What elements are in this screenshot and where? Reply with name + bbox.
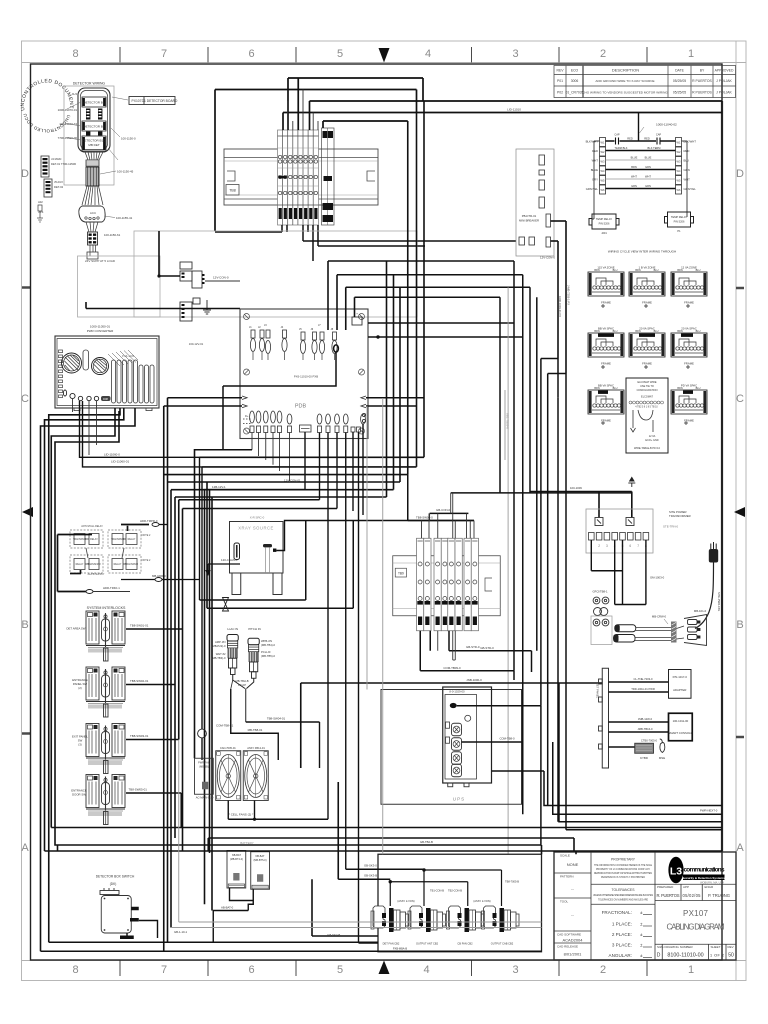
svg-text:ECO: ECO xyxy=(571,69,579,73)
svg-text:FRAME: FRAME xyxy=(601,362,611,366)
svg-text:TB8-SW02-01: TB8-SW02-01 xyxy=(130,679,149,683)
svg-text:4: 4 xyxy=(425,48,431,60)
svg-text:SIZE: SIZE xyxy=(657,945,664,949)
svg-text:CONFIGURATION: CONFIGURATION xyxy=(637,389,658,392)
svg-text:DRAWING NUMBER: DRAWING NUMBER xyxy=(665,945,694,949)
svg-text:8/01/2001: 8/01/2001 xyxy=(564,952,583,957)
svg-text:160-12V-01: 160-12V-01 xyxy=(189,342,204,346)
svg-text:5: 5 xyxy=(337,964,343,976)
svg-text:J201: J201 xyxy=(601,231,607,235)
svg-text:BRN: BRN xyxy=(635,269,640,272)
svg-text:RED: RED xyxy=(684,149,690,153)
svg-text:100-1150-45: 100-1150-45 xyxy=(117,170,134,174)
svg-text:TB1-CON-B: TB1-CON-B xyxy=(430,889,444,893)
svg-text:THE INFORMATION CONTAINED HERE: THE INFORMATION CONTAINED HEREIN IS THE … xyxy=(594,864,652,867)
svg-text:JNB-1000-0: JNB-1000-0 xyxy=(466,678,482,682)
svg-text:1 OF 2: 1 OF 2 xyxy=(710,954,724,958)
svg-text:STE-TRN-0: STE-TRN-0 xyxy=(663,525,678,529)
svg-text:5: 5 xyxy=(337,48,343,60)
svg-text:BLU: BLU xyxy=(613,269,618,272)
svg-text:* CELL FANS (2) *: * CELL FANS (2) * xyxy=(229,813,254,817)
svg-text:4: 4 xyxy=(423,964,429,976)
svg-text:DATE: DATE xyxy=(675,69,685,73)
svg-text:MSE: MSE xyxy=(659,756,665,760)
svg-text:X-R SRC-0: X-R SRC-0 xyxy=(250,516,265,520)
svg-text:WOBURN, MA, USA: WOBURN, MA, USA xyxy=(700,880,724,884)
svg-text:PXB-MBA-B: PXB-MBA-B xyxy=(393,947,408,951)
svg-text:P/N-1017-0: P/N-1017-0 xyxy=(673,675,688,679)
svg-text:(MB-3B): (MB-3B) xyxy=(199,766,208,769)
svg-text:RED: RED xyxy=(644,137,650,141)
svg-text:ACAD2004: ACAD2004 xyxy=(562,938,583,943)
svg-text:REPRODUCTION IN PART OR WHOLE: REPRODUCTION IN PART OR WHOLE WITHOUT WR… xyxy=(594,872,652,875)
svg-text:1: 1 xyxy=(688,964,694,976)
svg-text:L3: L3 xyxy=(670,866,682,878)
svg-text:NONE: NONE xyxy=(567,862,579,867)
svg-text:GB-TB2-B: GB-TB2-B xyxy=(420,840,433,844)
svg-text:GM-1003-0: GM-1003-0 xyxy=(650,576,665,580)
svg-text:GB-STD-0: GB-STD-0 xyxy=(466,645,480,649)
svg-text:GB-1-10-1: GB-1-10-1 xyxy=(174,930,188,934)
svg-text:REV: REV xyxy=(728,945,734,949)
svg-text:SCALE: SCALE xyxy=(560,854,570,858)
svg-text:12V-CON-0: 12V-CON-0 xyxy=(213,276,229,280)
svg-text:12V-CON-01: 12V-CON-01 xyxy=(284,479,301,483)
svg-text:SMART CONSOLE: SMART CONSOLE xyxy=(668,731,692,735)
svg-text:3 PLACE:: 3 PLACE: xyxy=(612,943,632,948)
svg-text:(ASSY 2-VON): (ASSY 2-VON) xyxy=(397,899,414,903)
svg-text:D1 DETECTOR BOARD: D1 DETECTOR BOARD xyxy=(142,99,178,103)
svg-text:SHEET: SHEET xyxy=(711,945,721,949)
svg-text:PITCH IN: PITCH IN xyxy=(248,627,260,631)
svg-text:COM-TB09-0: COM-TB09-0 xyxy=(443,666,461,670)
svg-text:RED: RED xyxy=(592,149,598,153)
svg-text:GB-SK3-B: GB-SK3-B xyxy=(364,874,377,878)
svg-text:NB-BAT: NB-BAT xyxy=(232,854,241,857)
svg-text:C: C xyxy=(736,393,744,405)
svg-text:LID-11060-0: LID-11060-0 xyxy=(104,453,120,457)
svg-text:MB DET: MB DET xyxy=(88,143,100,147)
svg-text:BLU: BLU xyxy=(696,269,701,272)
svg-text:WIRE-TABLE-B P/N 10: WIRE-TABLE-B P/N 10 xyxy=(634,447,661,450)
svg-text:12 VA: 12 VA xyxy=(649,435,656,438)
svg-text:(MB-TB5)-0: (MB-TB5)-0 xyxy=(261,654,276,658)
svg-text:W5: W5 xyxy=(601,179,605,183)
svg-text:ELCOMAT WIRE: ELCOMAT WIRE xyxy=(637,381,656,384)
svg-text:7: 7 xyxy=(161,48,167,60)
svg-text:1: 1 xyxy=(688,48,694,60)
svg-text:2 PLACE:: 2 PLACE: xyxy=(612,932,632,937)
svg-text:(MB-TB3)-0: (MB-TB3)-0 xyxy=(211,656,226,660)
svg-text:AB-BAT-0: AB-BAT-0 xyxy=(221,906,234,910)
svg-text:(MB-TB4)-0: (MB-TB4)-0 xyxy=(261,643,276,647)
svg-text:3006: 3006 xyxy=(571,79,579,83)
svg-text:JMB-12W-0: JMB-12W-0 xyxy=(638,717,653,721)
svg-text:PREPARED: PREPARED xyxy=(657,885,674,889)
svg-text:W2: W2 xyxy=(677,150,681,154)
svg-text:GRY: GRY xyxy=(592,178,598,182)
svg-text:XRAY SOURCE: XRAY SOURCE xyxy=(238,526,274,531)
svg-text:PX107: PX107 xyxy=(132,99,142,103)
svg-text:W6: W6 xyxy=(677,188,681,192)
svg-text:R PUERTOS: R PUERTOS xyxy=(692,79,712,83)
svg-text:B: B xyxy=(21,619,28,631)
svg-text:BRN: BRN xyxy=(594,330,599,333)
svg-text:3: 3 xyxy=(606,544,608,548)
svg-text:7: 7 xyxy=(161,964,167,976)
svg-text:12B-12V-1: 12B-12V-1 xyxy=(212,485,226,489)
svg-text:ELCOMAT: ELCOMAT xyxy=(641,396,653,399)
svg-text:TB2-CON-B: TB2-CON-B xyxy=(448,889,462,893)
svg-text:PROPERTY OF L3 COMMUNICATIONS: PROPERTY OF L3 COMMUNICATIONS CORP. ANY xyxy=(596,868,650,871)
svg-text:FRACTIONAL:: FRACTIONAL: xyxy=(602,910,632,915)
svg-text:CAD SOFTWARE: CAD SOFTWARE xyxy=(557,933,581,937)
svg-text:H-AC IN: H-AC IN xyxy=(227,627,238,631)
svg-text:(DK): (DK) xyxy=(110,882,117,886)
svg-text:OUTPUT ANT CB2: OUTPUT ANT CB2 xyxy=(416,942,439,946)
svg-text:A: A xyxy=(736,842,744,854)
svg-text:CAD RELEASE: CAD RELEASE xyxy=(557,945,578,949)
svg-text:FRAME: FRAME xyxy=(601,301,611,305)
svg-text:BLK TERM: BLK TERM xyxy=(648,146,661,150)
svg-text:100-1150-0: 100-1150-0 xyxy=(121,137,136,141)
svg-text:FRAME: FRAME xyxy=(684,419,694,423)
svg-text:GRN: GRN xyxy=(645,184,651,188)
svg-text:100-1155-41: 100-1155-41 xyxy=(116,216,133,220)
svg-text:TB9: TB9 xyxy=(398,572,404,576)
svg-text:ANTI-STALL RELAY: ANTI-STALL RELAY xyxy=(81,525,103,528)
svg-text:WPB-J/N: WPB-J/N xyxy=(261,639,272,643)
svg-text:RELAY: RELAY xyxy=(76,563,84,566)
svg-text:4 TB2 5 6 1 8 5 TB 10: 4 TB2 5 6 1 8 5 TB 10 xyxy=(635,407,658,409)
svg-text:8100-11010-00: 8100-11010-00 xyxy=(667,953,703,959)
svg-text:BLU: BLU xyxy=(654,330,659,333)
svg-text:J-MB-7203-1-PX: J-MB-7203-1-PX xyxy=(567,285,571,305)
svg-text:W3: W3 xyxy=(601,160,605,164)
svg-text:PDB: PDB xyxy=(295,404,307,410)
svg-text:FRAME: FRAME xyxy=(642,301,652,305)
svg-text:TOOL: TOOL xyxy=(560,900,568,904)
svg-text:CL-TNE-7203-0: CL-TNE-7203-0 xyxy=(634,677,653,681)
svg-text:AL/PB SUPPLY: AL/PB SUPPLY xyxy=(88,573,105,576)
svg-text:FRAME: FRAME xyxy=(601,419,611,423)
svg-text:ASSY FB12-01: ASSY FB12-01 xyxy=(247,746,265,750)
svg-text:TRANSFMR: TRANSFMR xyxy=(125,563,139,566)
svg-text:W3: W3 xyxy=(677,160,681,164)
svg-text:2: 2 xyxy=(600,48,606,60)
svg-text:OUTPUT CAB CB2: OUTPUT CAB CB2 xyxy=(491,942,514,946)
svg-text:6: 6 xyxy=(248,964,254,976)
svg-text:PX107: PX107 xyxy=(683,909,709,918)
svg-text:GB-SK2-B: GB-SK2-B xyxy=(327,933,341,937)
svg-text:communications: communications xyxy=(684,867,725,874)
svg-text:RELAY: RELAY xyxy=(128,538,136,541)
svg-text:PATTERN: PATTERN xyxy=(560,875,574,879)
svg-text:J POLJAK: J POLJAK xyxy=(716,91,732,95)
svg-text:MB-101-0: MB-101-0 xyxy=(694,609,707,613)
svg-text:DETECTOR B2: DETECTOR B2 xyxy=(84,125,105,129)
svg-text:ECO+ GND: ECO+ GND xyxy=(645,439,658,442)
svg-text:BRN: BRN xyxy=(677,330,682,333)
svg-text:CTB0-7005-0: CTB0-7005-0 xyxy=(641,739,658,743)
svg-text:APPROVED: APPROVED xyxy=(715,69,734,73)
svg-text:01_CR7035: 01_CR7035 xyxy=(565,91,583,95)
svg-text:FAN-7005-01: FAN-7005-01 xyxy=(220,746,236,750)
svg-text:P1: P1 xyxy=(677,229,681,233)
svg-text:50: 50 xyxy=(728,953,734,959)
svg-text:2: 2 xyxy=(600,964,606,976)
svg-text:CHG WIRING TO VENDORS SUGGESTE: CHG WIRING TO VENDORS SUGGESTED MOTOR WI… xyxy=(582,91,668,95)
svg-text:D: D xyxy=(736,168,744,180)
svg-text:C: C xyxy=(21,393,29,405)
svg-text:DET-01: DET-01 xyxy=(51,162,61,166)
svg-text:PWR-NEXT-0: PWR-NEXT-0 xyxy=(700,809,718,813)
svg-text:BLUE: BLUE xyxy=(645,156,652,160)
svg-text:DETECTOR WIRING: DETECTOR WIRING xyxy=(73,82,106,86)
svg-text:CAP: CAP xyxy=(656,133,662,137)
svg-text:(3): (3) xyxy=(78,743,81,747)
svg-text:DETECTOR BOX SWITCH: DETECTOR BOX SWITCH xyxy=(96,875,135,879)
svg-text:(ASSY 2-VON): (ASSY 2-VON) xyxy=(473,899,490,903)
svg-text:20 VA SPAC: 20 VA SPAC xyxy=(639,327,654,331)
svg-text:TRANSFMR: TRANSFMR xyxy=(87,563,101,566)
svg-text:TEMP RELAY: TEMP RELAY xyxy=(671,215,687,219)
svg-text:1000-11050-01: 1000-11050-01 xyxy=(90,325,110,329)
svg-text:3: 3 xyxy=(512,48,518,60)
svg-text:BLU: BLU xyxy=(696,387,701,390)
svg-text:COM-TB8-0: COM-TB8-0 xyxy=(499,737,515,741)
svg-text:1 PLACE:: 1 PLACE: xyxy=(612,922,632,927)
svg-text:BRN: BRN xyxy=(631,165,637,169)
svg-text:FRAME: FRAME xyxy=(642,362,652,366)
svg-text:WHT: WHT xyxy=(631,175,637,179)
svg-text:GFCI/TB8-1: GFCI/TB8-1 xyxy=(592,590,608,594)
svg-text:HDR-TRKF-1: HDR-TRKF-1 xyxy=(103,586,120,590)
svg-text:RELAY: RELAY xyxy=(114,563,122,566)
svg-text:BLK/WHT: BLK/WHT xyxy=(586,140,599,144)
svg-text:RELAY: RELAY xyxy=(90,538,98,541)
svg-text:MB-TB8-01: MB-TB8-01 xyxy=(248,728,263,732)
svg-text:12V-CON-0: 12V-CON-0 xyxy=(540,256,555,260)
svg-text:AC-MAIN-01-0: AC-MAIN-01-0 xyxy=(196,796,214,800)
svg-text:2: 2 xyxy=(598,544,600,548)
svg-text:D08: D08 xyxy=(103,397,108,401)
svg-text:1000-11040-02: 1000-11040-02 xyxy=(656,123,677,127)
svg-text:TRANSFMR: TRANSFMR xyxy=(111,538,125,541)
svg-text:BRN: BRN xyxy=(677,269,682,272)
svg-text:8: 8 xyxy=(72,48,78,60)
svg-text:05/25/05: 05/25/05 xyxy=(673,91,686,95)
svg-text:DET FAN CB2: DET FAN CB2 xyxy=(383,942,400,946)
svg-text:FRAME: FRAME xyxy=(684,301,694,305)
svg-text:7: 7 xyxy=(637,544,639,548)
svg-text:BLU: BLU xyxy=(684,159,689,163)
svg-text:3: 3 xyxy=(512,964,518,976)
svg-text:PX6-11010-00 PXB: PX6-11010-00 PXB xyxy=(294,375,318,379)
svg-text:GRN/YEL: GRN/YEL xyxy=(684,187,697,191)
svg-text:TERM BLK: TERM BLK xyxy=(615,146,628,150)
svg-text:ENGR: ENGR xyxy=(705,885,715,889)
svg-text:W1: W1 xyxy=(677,141,681,145)
svg-text:SYSTEM INTERLOCKS: SYSTEM INTERLOCKS xyxy=(87,606,126,610)
svg-text:TDD-100A-01 PWR: TDD-100A-01 PWR xyxy=(631,687,655,691)
svg-text:D: D xyxy=(21,168,29,180)
svg-text:A02: A02 xyxy=(38,200,43,204)
svg-text:PB-DTR-01: PB-DTR-01 xyxy=(522,214,537,218)
svg-text:WIRING CYCLE VIEW INTER WIRING: WIRING CYCLE VIEW INTER WIRING THROUGH xyxy=(608,250,676,254)
svg-text:PWR FAIL: PWR FAIL xyxy=(198,762,210,765)
svg-text:P/N 5206: P/N 5206 xyxy=(599,222,610,226)
svg-text:NB-BAT: NB-BAT xyxy=(256,855,265,858)
svg-text:PX6-1105: PX6-1105 xyxy=(122,354,135,358)
svg-text:BRN: BRN xyxy=(635,330,640,333)
svg-text:R. PUERTOS: R. PUERTOS xyxy=(657,893,680,898)
svg-text:DOOR SW: DOOR SW xyxy=(72,793,86,797)
svg-text:TRANSFMR: TRANSFMR xyxy=(73,538,87,541)
svg-text:J POLJAK: J POLJAK xyxy=(716,79,732,83)
svg-text:BLU: BLU xyxy=(696,330,701,333)
svg-text:BY: BY xyxy=(700,69,705,73)
svg-text:R PUERTOS: R PUERTOS xyxy=(692,91,712,95)
svg-text:MB-TBxLB: MB-TBxLB xyxy=(236,679,249,683)
svg-text:CB FAN CB2: CB FAN CB2 xyxy=(457,942,473,946)
svg-text:CAP: CAP xyxy=(614,133,620,137)
svg-text:DET AREA SW: DET AREA SW xyxy=(67,627,86,631)
svg-text:7700-11506: 7700-11506 xyxy=(61,162,77,166)
svg-text:BLU: BLU xyxy=(613,387,618,390)
svg-text:GB-SK3-0: GB-SK3-0 xyxy=(364,864,377,868)
svg-text:W2: W2 xyxy=(601,150,605,154)
svg-text:ADAPTER: ADAPTER xyxy=(673,688,686,692)
svg-text:XB1-TB09-0: XB1-TB09-0 xyxy=(506,413,510,429)
svg-text:TOLERANCES: TOLERANCES xyxy=(612,888,636,892)
svg-text:BRN: BRN xyxy=(594,387,599,390)
svg-text:W4: W4 xyxy=(677,169,681,173)
svg-text:UNLESS OTHERWISE SPECIFIED DIM: UNLESS OTHERWISE SPECIFIED DIMENSIONS AR… xyxy=(593,894,653,897)
svg-text:24V SUPP AT 5 LOAD: 24V SUPP AT 5 LOAD xyxy=(85,259,116,263)
svg-text:BLK/WHT: BLK/WHT xyxy=(684,140,697,144)
svg-text:TRANSFORMER: TRANSFORMER xyxy=(669,514,691,518)
svg-text:05/02/05: 05/02/05 xyxy=(683,893,702,898)
svg-text:GB-CON-0: GB-CON-0 xyxy=(436,508,451,512)
svg-text:120-CHAS-0: 120-CHAS-0 xyxy=(221,558,238,562)
svg-text:P02: P02 xyxy=(557,91,563,95)
svg-text:B: B xyxy=(736,619,743,631)
svg-text:P/CAP: P/CAP xyxy=(238,683,246,687)
svg-text:SITE-PWR-CBL: SITE-PWR-CBL xyxy=(717,592,721,612)
svg-text:KYBD: KYBD xyxy=(640,756,648,760)
svg-text:W6: W6 xyxy=(601,188,605,192)
svg-text:TB8: TB8 xyxy=(229,189,236,193)
svg-text:BRN: BRN xyxy=(594,269,599,272)
svg-text:TB8-SW04-01: TB8-SW04-01 xyxy=(267,717,286,721)
svg-text:100-1156-61: 100-1156-61 xyxy=(104,233,121,237)
svg-text:1000-1003-01 PX: 1000-1003-01 PX xyxy=(558,296,562,317)
svg-text:DET-02: DET-02 xyxy=(54,185,64,189)
svg-text:REV: REV xyxy=(557,69,565,73)
svg-text:100-1011-00: 100-1011-00 xyxy=(673,719,689,723)
svg-text:6: 6 xyxy=(248,48,254,60)
svg-text:(MB-BT4-0): (MB-BT4-0) xyxy=(230,858,243,861)
svg-text:AMP J/N: AMP J/N xyxy=(215,640,226,644)
svg-text:J1/4: J1/4 xyxy=(72,92,78,96)
svg-text:A: A xyxy=(21,842,29,854)
svg-text:TEMP RELAY: TEMP RELAY xyxy=(596,217,612,221)
svg-text:W4: W4 xyxy=(601,169,605,173)
svg-text:CABLING DIAGRAM: CABLING DIAGRAM xyxy=(667,923,725,932)
svg-text:ACC: ACC xyxy=(90,211,97,215)
svg-text:RED: RED xyxy=(627,137,633,141)
svg-text:05/25/05: 05/25/05 xyxy=(673,79,686,83)
svg-text:(MB-BT5-0): (MB-BT5-0) xyxy=(253,859,266,862)
svg-text:8: 8 xyxy=(72,964,78,976)
svg-text:GB-STD-0: GB-STD-0 xyxy=(480,646,494,650)
svg-text:DESCRIPTION: DESCRIPTION xyxy=(612,68,639,73)
svg-text:PCH-J0: PCH-J0 xyxy=(261,650,271,654)
svg-text:DET PANEL: DET PANEL xyxy=(596,683,600,699)
svg-text:DETECTOR B1: DETECTOR B1 xyxy=(84,101,105,105)
svg-text:LID-11060-01: LID-11060-01 xyxy=(111,460,129,464)
svg-text:GRN/YEL: GRN/YEL xyxy=(586,187,599,191)
svg-text:HDR-TMPR-0: HDR-TMPR-0 xyxy=(140,519,158,523)
svg-text:GRN: GRN xyxy=(631,184,637,188)
svg-text:GRN: GRN xyxy=(645,165,651,169)
svg-text:6: 6 xyxy=(629,544,631,548)
svg-text:TB8-7005-B: TB8-7005-B xyxy=(505,880,519,884)
svg-text:PROPRIETARY: PROPRIETARY xyxy=(611,858,636,862)
svg-text:FRAME: FRAME xyxy=(684,362,694,366)
svg-text:P/N 5206: P/N 5206 xyxy=(674,220,685,224)
svg-text:USE TIE TO: USE TIE TO xyxy=(640,385,654,388)
svg-text:WHT: WHT xyxy=(592,159,599,163)
svg-text:P01: P01 xyxy=(557,79,563,83)
svg-text:20 VA SPAC: 20 VA SPAC xyxy=(681,327,696,331)
svg-text:MINI BREAKER: MINI BREAKER xyxy=(519,219,539,223)
svg-text:NOTE 2: NOTE 2 xyxy=(142,534,151,537)
svg-text:LID-11010: LID-11010 xyxy=(507,108,521,112)
svg-text:BLU: BLU xyxy=(613,330,618,333)
svg-text:MB-CRW-0: MB-CRW-0 xyxy=(652,615,667,619)
svg-text:PERMISSION IS STRICTLY PROHIBI: PERMISSION IS STRICTLY PROHIBITED xyxy=(601,877,645,879)
svg-text:J4 MAIN: J4 MAIN xyxy=(51,157,61,161)
svg-text:JMB-TB16-0: JMB-TB16-0 xyxy=(637,727,653,731)
svg-text:J5 AUX: J5 AUX xyxy=(54,180,63,184)
svg-text:ADD GROUND WIRE TO X-RAY SOURC: ADD GROUND WIRE TO X-RAY SOURCE xyxy=(595,79,654,83)
svg-text:BLU: BLU xyxy=(654,269,659,272)
svg-text:ANGULAR:: ANGULAR: xyxy=(609,953,633,958)
svg-text:100-1009: 100-1009 xyxy=(570,486,582,490)
svg-text:P. TRUONG: P. TRUONG xyxy=(708,893,730,898)
svg-text:TB8-SW04-0: TB8-SW04-0 xyxy=(416,516,433,520)
svg-text:PWR CONVERTER: PWR CONVERTER xyxy=(87,329,114,333)
svg-text:UPS: UPS xyxy=(453,797,465,802)
svg-text:WHT: WHT xyxy=(645,175,651,179)
svg-text:J/P4: J/P4 xyxy=(38,210,44,214)
svg-text:8-0-1029-00: 8-0-1029-00 xyxy=(449,690,465,694)
svg-text:(2): (2) xyxy=(78,686,81,690)
svg-text:W5: W5 xyxy=(677,179,681,183)
svg-text:D+: D+ xyxy=(245,414,249,418)
svg-text:WHT #2: WHT #2 xyxy=(216,652,226,656)
svg-text:BRN: BRN xyxy=(677,387,682,390)
svg-text:(MB-P22)-0: (MB-P22)-0 xyxy=(212,644,226,648)
svg-text:Security & Detection Systems: Security & Detection Systems xyxy=(682,876,725,880)
svg-text:W1: W1 xyxy=(601,141,605,145)
svg-text:TB8-SW05-01: TB8-SW05-01 xyxy=(129,788,148,792)
svg-text:TB8-SW01-01: TB8-SW01-01 xyxy=(130,624,149,628)
svg-text:TB8-SW03-01: TB8-SW03-01 xyxy=(130,734,149,738)
svg-text:TOLERANCES ON NUMBERS AND ANGL: TOLERANCES ON NUMBERS AND ANGLES ARE xyxy=(598,899,648,902)
